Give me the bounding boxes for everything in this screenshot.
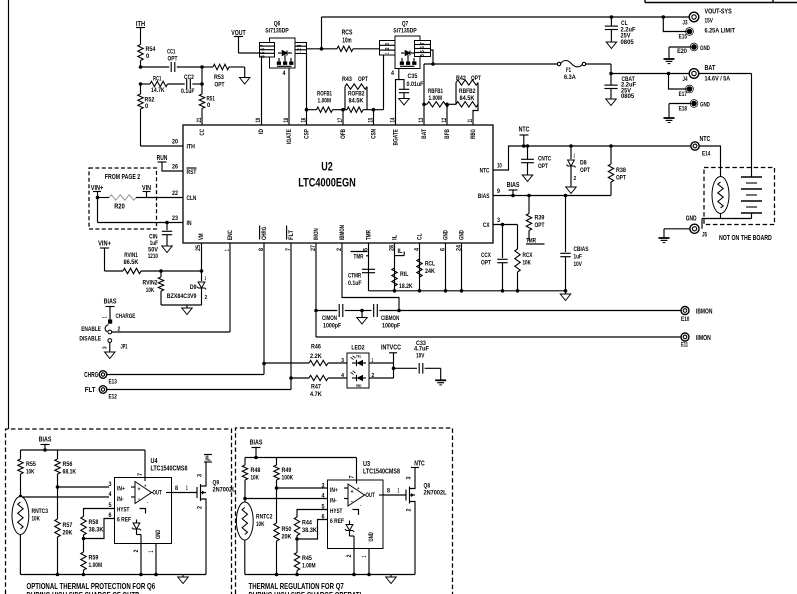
- resistor RCL: [417, 259, 422, 277]
- svg-text:R45: R45: [302, 555, 312, 562]
- capacitor CTMR: [362, 268, 375, 270]
- svg-text:D9: D9: [190, 284, 197, 291]
- svg-text:10m: 10m: [342, 36, 351, 45]
- svg-text:10K: 10K: [32, 516, 41, 523]
- wire REF box1: [84, 519, 115, 539]
- resistor R55: [20, 450, 22, 459]
- svg-text:DISABLE: DISABLE: [79, 336, 101, 343]
- svg-text:R39: R39: [535, 215, 545, 222]
- svg-text:IN: IN: [187, 220, 192, 227]
- wire TMR pin: [368, 243, 370, 291]
- wire ground rail under U2: [369, 290, 566, 292]
- svg-text:4.7K: 4.7K: [310, 391, 322, 398]
- svg-text:OUT: OUT: [153, 490, 162, 497]
- svg-text:Q6: Q6: [274, 21, 281, 28]
- svg-text:J5: J5: [702, 232, 707, 239]
- svg-text:+: +: [351, 490, 354, 496]
- svg-text:2: 2: [574, 176, 577, 182]
- svg-text:38.3K: 38.3K: [302, 527, 317, 534]
- svg-text:7: 7: [261, 44, 267, 47]
- svg-text:VM: VM: [198, 233, 205, 240]
- svg-text:2N7002L: 2N7002L: [424, 490, 447, 497]
- resistor RBFB1: [427, 102, 449, 107]
- svg-text:RED: RED: [356, 384, 362, 388]
- wire ground rail box2: [245, 574, 415, 576]
- svg-text:-: -: [138, 496, 140, 503]
- resistor R48: [244, 458, 246, 466]
- svg-text:GND: GND: [459, 230, 466, 240]
- wire BIAS rail: [493, 195, 611, 197]
- svg-text:R46: R46: [311, 344, 321, 351]
- node BIAS flag: [511, 194, 515, 198]
- svg-text:6.3A: 6.3A: [564, 74, 576, 81]
- svg-text:84.5K: 84.5K: [349, 98, 364, 105]
- wire HYST box1: [84, 509, 115, 517]
- svg-text:E12: E12: [109, 394, 118, 401]
- node IN+ junction box1: [56, 485, 60, 489]
- svg-text:38.3K: 38.3K: [89, 527, 104, 534]
- svg-text:LTC1540CMS8: LTC1540CMS8: [151, 466, 188, 473]
- svg-text:CHRG: CHRG: [261, 227, 268, 240]
- wire Q6 to ID pin: [261, 57, 263, 125]
- svg-text:RUN: RUN: [157, 153, 168, 162]
- svg-text:10: 10: [497, 164, 502, 170]
- svg-text:YEL: YEL: [356, 355, 362, 359]
- Q6 gate pin 4 wire to IGATE: [288, 68, 290, 125]
- svg-text:LED2: LED2: [351, 345, 364, 352]
- svg-text:IBMON: IBMON: [696, 307, 712, 316]
- svg-text:R56: R56: [63, 461, 73, 468]
- svg-text:CIMON: CIMON: [322, 315, 337, 322]
- svg-text:26: 26: [172, 165, 179, 171]
- transistor Q6 internal MOSFET symbol: [282, 51, 287, 56]
- node OFB junction: [341, 108, 345, 112]
- svg-text:TMR: TMR: [354, 253, 364, 260]
- capacitor CCX: [502, 225, 504, 259]
- wire R51 to CC pin: [201, 109, 203, 126]
- svg-text:R38: R38: [616, 167, 626, 174]
- node IN- junction box2: [243, 497, 247, 501]
- svg-text:0: 0: [145, 103, 149, 110]
- svg-text:Q9: Q9: [213, 480, 220, 487]
- resistor R58: [81, 517, 86, 535]
- svg-text:IGATE: IGATE: [286, 129, 293, 144]
- wire IN- box1: [21, 496, 110, 498]
- wire CL pin: [419, 243, 421, 291]
- svg-text:OPT: OPT: [215, 82, 225, 89]
- svg-text:BAT: BAT: [705, 63, 716, 72]
- node IN+ junction box2: [275, 486, 279, 490]
- capacitor CL: [610, 15, 614, 19]
- svg-text:14.7K: 14.7K: [151, 87, 165, 94]
- svg-text:1.00M: 1.00M: [89, 562, 103, 569]
- wire Q8 source to rail: [414, 504, 416, 575]
- svg-text:JP1: JP1: [121, 344, 128, 351]
- Q7 gate pin 4 wire to BGATE: [396, 69, 399, 126]
- svg-text:RBG: RBG: [470, 129, 477, 139]
- wire IMON pin to IIMON: [315, 243, 317, 337]
- thermistor RNTC2: [236, 502, 253, 540]
- svg-text:IN-: IN-: [117, 496, 124, 503]
- node E17 junction: [667, 72, 671, 76]
- wire RBG pin connection: [473, 104, 478, 125]
- svg-text:100K: 100K: [282, 475, 294, 482]
- svg-text:ITH: ITH: [187, 144, 196, 151]
- resistor ROFB1: [317, 107, 333, 112]
- svg-text:1: 1: [574, 154, 576, 160]
- svg-text:R20: R20: [114, 204, 125, 211]
- svg-text:R54: R54: [146, 46, 156, 53]
- wire Q8 drain: [414, 468, 416, 483]
- title block edge (top right, cut off): [645, 2, 797, 4]
- svg-text:1: 1: [297, 52, 303, 54]
- transistor Q9 2N7002L: [196, 487, 198, 498]
- connector E20 GND: [691, 44, 697, 50]
- wire Q7 drain riser to CSN: [383, 55, 385, 110]
- svg-text:CC1: CC1: [167, 49, 176, 56]
- capacitor C33: [418, 363, 420, 374]
- capacitor CIN: [166, 223, 168, 231]
- svg-text:U2: U2: [321, 162, 333, 174]
- jumper JP1: [108, 320, 112, 324]
- wire Q9 source to rail: [205, 501, 207, 575]
- resistor R46: [264, 362, 309, 364]
- resistor R43 (parallel loop): [344, 87, 346, 110]
- svg-text:10K: 10K: [26, 469, 35, 476]
- svg-text:BAT: BAT: [421, 129, 428, 139]
- svg-text:OPT: OPT: [538, 163, 548, 170]
- resistor RVIN2: [160, 271, 162, 277]
- svg-text:10K: 10K: [146, 287, 155, 294]
- wire VOUT-SYS rail: [321, 17, 323, 49]
- svg-text:NTC: NTC: [480, 168, 490, 175]
- svg-text:BIAS: BIAS: [39, 435, 52, 444]
- svg-text:R48: R48: [251, 467, 261, 474]
- svg-text:R58: R58: [89, 519, 99, 526]
- ground at C33: [440, 368, 442, 380]
- svg-text:NOT ON THE BOARD: NOT ON THE BOARD: [719, 233, 772, 242]
- capacitor C35: [399, 80, 404, 90]
- svg-text:CLN: CLN: [187, 195, 197, 202]
- resistor R44: [294, 517, 299, 535]
- connector E17: [669, 74, 687, 90]
- wire HYST box2: [297, 510, 328, 518]
- svg-text:86.5K: 86.5K: [124, 259, 139, 266]
- svg-text:VOUT-SYS: VOUT-SYS: [705, 7, 732, 16]
- svg-text:6 REF: 6 REF: [117, 517, 131, 524]
- svg-text:NTC: NTC: [700, 134, 711, 143]
- svg-text:C35: C35: [408, 73, 418, 80]
- svg-text:Si7135DP: Si7135DP: [265, 28, 289, 35]
- resistor R45: [294, 553, 299, 571]
- svg-text:BIAS: BIAS: [507, 180, 520, 189]
- capacitor CIMON: [316, 310, 337, 312]
- svg-text:RBFB2: RBFB2: [459, 88, 476, 95]
- svg-text:10K: 10K: [251, 475, 260, 482]
- thermistor RNTC1 ellipse: [712, 177, 729, 214]
- node CC1 junction: [139, 65, 143, 69]
- svg-text:OPT: OPT: [481, 260, 491, 267]
- svg-text:ROFB2: ROFB2: [348, 91, 365, 98]
- svg-text:CNTC: CNTC: [538, 156, 551, 163]
- resistor RIL: [392, 268, 397, 286]
- connector E18 GND: [691, 101, 697, 107]
- wire BAT rail: [424, 63, 557, 65]
- wire RBFB row: [424, 103, 427, 105]
- svg-text:10V: 10V: [416, 352, 425, 359]
- wire ITH vertical: [140, 28, 142, 45]
- svg-text:FLT: FLT: [85, 385, 96, 394]
- wire right compensation vertical: [201, 67, 203, 94]
- wire D9 RVIN2 bottom: [161, 304, 202, 306]
- wire R52 to ITH pin: [140, 109, 142, 146]
- svg-text:D8: D8: [580, 160, 587, 167]
- svg-text:CX: CX: [483, 222, 490, 229]
- svg-text:LTC1540CMS8: LTC1540CMS8: [363, 469, 400, 476]
- ground at D8: [566, 187, 576, 194]
- svg-text:6: 6: [261, 48, 267, 51]
- svg-text:IN+: IN+: [117, 486, 125, 493]
- resistor R42 (parallel loop): [455, 83, 457, 105]
- dashed box FROM PAGE 2: [89, 168, 157, 229]
- svg-text:CHRG: CHRG: [84, 370, 99, 379]
- resistor R49: [276, 458, 278, 466]
- dashed box OPTIONAL THERMAL PROTECTION: [6, 429, 232, 594]
- battery dashed box: [704, 168, 775, 225]
- svg-text:IIMON: IIMON: [696, 333, 711, 342]
- svg-text:OPT: OPT: [580, 167, 590, 174]
- svg-text:F1: F1: [566, 67, 571, 74]
- svg-text:2: 2: [297, 48, 303, 51]
- svg-text:GND: GND: [700, 45, 710, 52]
- svg-text:5: 5: [261, 52, 267, 55]
- svg-text:8: 8: [420, 54, 426, 57]
- svg-text:R49: R49: [282, 467, 292, 474]
- svg-text:68.1K: 68.1K: [63, 469, 77, 476]
- svg-text:BGATE: BGATE: [393, 129, 400, 146]
- svg-text:OPT: OPT: [535, 222, 545, 229]
- node CSN junction: [372, 108, 376, 112]
- svg-text:0: 0: [146, 53, 150, 60]
- wire GND pin 24: [461, 243, 463, 291]
- wire VM pin: [201, 243, 203, 271]
- svg-text:1: 1: [205, 276, 207, 282]
- wire RUN to RST pin: [162, 162, 183, 171]
- svg-text:NTC: NTC: [414, 461, 425, 468]
- svg-text:25: 25: [196, 244, 202, 251]
- ground at R53: [244, 67, 246, 78]
- svg-text:CC: CC: [199, 129, 206, 136]
- svg-text:U3: U3: [363, 461, 370, 468]
- svg-text:CTMR: CTMR: [348, 273, 361, 280]
- op-amp U2 LTC4000EGN body: [183, 125, 493, 243]
- wire Q7 right pins to BAT rail: [431, 50, 434, 64]
- svg-text:CBIAS: CBIAS: [574, 246, 589, 253]
- ground at CBIAS rail: [565, 291, 567, 294]
- capacitor CC1: [141, 66, 170, 68]
- wire RCS to Q7: [353, 48, 380, 50]
- wire OUT to Q9: [172, 492, 198, 494]
- resistor ROFB2: [347, 107, 363, 112]
- resistor R52: [140, 84, 142, 94]
- connector E11 IIMON: [681, 333, 689, 341]
- wire IL pin: [394, 243, 396, 291]
- svg-text:0: 0: [207, 102, 211, 109]
- svg-text:LTC4000EGN: LTC4000EGN: [298, 178, 356, 190]
- svg-text:CC2: CC2: [184, 74, 194, 81]
- svg-text:ENABLE: ENABLE: [81, 326, 101, 333]
- svg-text:HYST: HYST: [117, 507, 130, 514]
- svg-text:OPT: OPT: [471, 75, 481, 82]
- ground at J5: [659, 237, 670, 239]
- svg-text:CIBMON: CIBMON: [381, 315, 399, 322]
- wire OUT to Q8: [383, 494, 406, 496]
- node CC right junction: [200, 65, 204, 69]
- dashed box THERMAL REGULATION: [236, 428, 453, 594]
- wire FLT pin to E12: [107, 389, 291, 391]
- ground at box2 rail: [390, 575, 392, 578]
- svg-text:ROFB1: ROFB1: [317, 91, 332, 98]
- svg-text:3: 3: [385, 43, 391, 46]
- svg-text:FROM PAGE 2: FROM PAGE 2: [105, 174, 140, 181]
- resistor R50: [274, 523, 279, 541]
- svg-text:RCX: RCX: [523, 252, 533, 259]
- wire BIAS rail box2: [245, 457, 357, 459]
- svg-text:0805: 0805: [621, 39, 634, 46]
- svg-text:IN+: IN+: [330, 487, 338, 494]
- svg-text:2.2K: 2.2K: [310, 353, 322, 360]
- svg-text:FLT: FLT: [288, 230, 295, 240]
- resistor R38: [609, 144, 613, 148]
- wire JP1 pin3 to ground: [109, 342, 111, 352]
- resistor R51: [199, 94, 204, 108]
- svg-text:IN-: IN-: [330, 498, 337, 505]
- svg-text:OPT: OPT: [358, 76, 368, 83]
- svg-text:RST: RST: [187, 169, 197, 176]
- connector J5 GND: [690, 224, 699, 233]
- svg-text:R43: R43: [342, 76, 352, 83]
- svg-text:0805: 0805: [621, 93, 634, 100]
- connector E10 IBMON: [681, 307, 689, 315]
- svg-text:6: 6: [420, 46, 426, 49]
- wire ground rail box1: [20, 574, 206, 576]
- battery cells: [741, 176, 762, 178]
- ground between monitor caps: [360, 309, 364, 313]
- svg-text:ENC: ENC: [227, 230, 234, 240]
- wire Q6 right pins to CSP/RCS node: [307, 48, 338, 50]
- svg-text:OFB: OFB: [340, 129, 347, 139]
- svg-text:20: 20: [172, 140, 179, 146]
- svg-text:NTC: NTC: [519, 125, 530, 134]
- resistor RCX: [517, 225, 519, 250]
- svg-text:E13: E13: [109, 379, 118, 386]
- svg-text:1000pF: 1000pF: [382, 323, 400, 330]
- svg-text:0.01uF: 0.01uF: [407, 81, 424, 88]
- svg-text:14.6V / 5A: 14.6V / 5A: [705, 76, 731, 83]
- svg-text:1.00M: 1.00M: [302, 563, 316, 570]
- svg-text:RCL: RCL: [425, 261, 435, 268]
- svg-text:1: 1: [102, 316, 108, 318]
- svg-text:E14: E14: [702, 151, 711, 158]
- svg-text:RVIN2: RVIN2: [143, 280, 158, 287]
- svg-text:23: 23: [172, 216, 179, 222]
- svg-text:ITH: ITH: [136, 19, 145, 28]
- wire U3 bottom pins: [353, 549, 355, 575]
- svg-text:R59: R59: [89, 555, 99, 562]
- zener D8: [569, 144, 573, 148]
- svg-text:20K: 20K: [282, 534, 292, 541]
- wire NTC pin to rail: [493, 146, 691, 170]
- svg-text:Q8: Q8: [424, 483, 431, 490]
- resistor R59: [81, 552, 86, 570]
- resistor R39: [527, 194, 531, 198]
- node RC1 junction: [139, 82, 143, 86]
- svg-text:0.1uF: 0.1uF: [348, 280, 362, 287]
- wire battery bottom: [720, 213, 722, 219]
- ground at CBAT: [606, 99, 616, 106]
- node VOUT-SYS riser junction: [320, 47, 324, 51]
- resistor RVIN1: [105, 270, 124, 272]
- transistor Q7 internal MOSFET symbol: [405, 51, 410, 56]
- svg-text:1.00M: 1.00M: [318, 98, 332, 105]
- capacitor CBIAS: [564, 194, 568, 198]
- svg-text:J4: J4: [682, 76, 687, 83]
- svg-text:VOUT: VOUT: [231, 28, 246, 37]
- svg-text:24K: 24K: [425, 268, 435, 275]
- svg-text:5: 5: [420, 50, 426, 53]
- svg-text:BIAS: BIAS: [250, 438, 263, 447]
- svg-text:R57: R57: [63, 522, 73, 529]
- resistor R47: [291, 377, 309, 379]
- capacitor CNTC: [526, 144, 530, 148]
- wire LED to INTVCC: [369, 362, 394, 364]
- svg-text:GND: GND: [155, 529, 162, 539]
- svg-text:OPTIONAL THERMAL PROTECTION FO: OPTIONAL THERMAL PROTECTION FOR Q6: [27, 582, 156, 591]
- svg-text:1000pF: 1000pF: [323, 323, 341, 330]
- svg-text:1.00M: 1.00M: [429, 95, 443, 102]
- svg-text:IL: IL: [392, 235, 399, 240]
- svg-text:15V: 15V: [705, 18, 714, 25]
- node BFB junction: [445, 103, 449, 107]
- fuse F1: [557, 62, 560, 65]
- svg-text:TMR: TMR: [366, 230, 373, 240]
- svg-text:22: 22: [172, 191, 179, 197]
- node CIN junction: [165, 221, 169, 225]
- resistor R20: [98, 197, 110, 199]
- svg-text:20K: 20K: [63, 530, 73, 537]
- ground at C35: [399, 99, 409, 106]
- svg-text:Si7135DP: Si7135DP: [393, 28, 417, 35]
- ground at CNTC: [522, 175, 532, 182]
- connector E14 NTC: [691, 142, 699, 150]
- svg-text:OPT: OPT: [168, 56, 178, 63]
- svg-text:GND: GND: [443, 230, 450, 240]
- svg-text:ID: ID: [258, 129, 265, 134]
- svg-text:R53: R53: [214, 74, 224, 81]
- svg-text:+: +: [357, 487, 360, 492]
- resistor R57: [55, 519, 60, 537]
- svg-text:10K: 10K: [523, 260, 532, 267]
- ground at RVIN2/D9: [182, 308, 192, 315]
- ground at E18: [664, 117, 675, 119]
- svg-text:BFB: BFB: [444, 129, 451, 139]
- svg-text:RBFB1: RBFB1: [428, 88, 443, 95]
- svg-text:E10: E10: [681, 316, 690, 323]
- wire IIMON: [316, 336, 681, 338]
- svg-text:RNTC3: RNTC3: [32, 508, 49, 515]
- svg-text:84.5K: 84.5K: [460, 95, 475, 102]
- wire IBMON pin: [342, 243, 399, 311]
